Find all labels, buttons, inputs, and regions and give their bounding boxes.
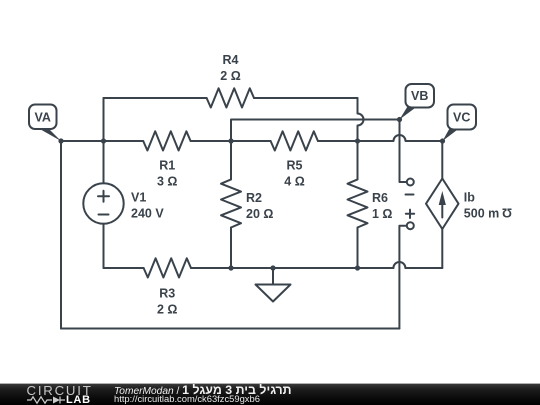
wire V1 bottom lead <box>103 224 105 268</box>
wire Ib top lead <box>441 141 443 179</box>
wire top row right segment from R4 <box>254 97 358 99</box>
footer logo LAB <box>66 394 91 405</box>
junction R6 bottom <box>355 265 360 270</box>
svg-text:R2: R2 <box>246 191 262 205</box>
wire R5 right lead <box>318 140 358 142</box>
junction R6 top <box>355 138 360 143</box>
junction node VC <box>440 138 445 143</box>
wire bottom rail hop over control riser <box>393 262 405 268</box>
resistor R3 <box>144 258 191 277</box>
svg-text:3 Ω: 3 Ω <box>157 175 177 189</box>
wire R5 left lead <box>231 140 271 142</box>
wire control plus vertical riser <box>399 226 406 329</box>
label R1 <box>157 159 177 189</box>
svg-text:R4: R4 <box>223 53 239 67</box>
svg-text:R3: R3 <box>159 287 175 301</box>
wire R4 right drop with hop over mid wire <box>358 98 364 141</box>
svg-text:Ib: Ib <box>464 191 475 205</box>
svg-text:V1: V1 <box>131 191 146 205</box>
svg-text:240 V: 240 V <box>131 207 164 221</box>
wire bottom rail left segment <box>104 267 144 269</box>
svg-text:Ω: Ω <box>502 205 512 219</box>
current source Ib diamond <box>426 179 459 230</box>
control port plus sign <box>406 210 414 218</box>
wire left vertical VA down <box>60 141 62 329</box>
label Ib <box>464 191 512 221</box>
svg-text:2 Ω: 2 Ω <box>220 69 240 83</box>
svg-text:VA: VA <box>34 110 50 124</box>
footer bar <box>0 384 540 405</box>
wire main row hop over VB drop <box>358 135 443 141</box>
svg-text:R5: R5 <box>287 159 303 173</box>
resistor R4 <box>207 88 254 107</box>
wire VA node to V1 top row <box>61 140 104 142</box>
node VB flag <box>400 84 435 120</box>
label R6 <box>372 191 392 221</box>
svg-text:2 Ω: 2 Ω <box>157 303 177 317</box>
label R4 <box>220 53 240 83</box>
svg-text:20 Ω: 20 Ω <box>246 207 273 221</box>
node VC flag <box>443 105 477 142</box>
junction node VB <box>397 117 402 122</box>
footer url line <box>114 393 260 404</box>
svg-text:VC: VC <box>453 111 470 125</box>
junction node A (VA) <box>58 138 63 143</box>
footer logo squiggle <box>27 397 65 404</box>
wire top row left segment to R4 <box>104 97 207 99</box>
control port minus terminal <box>407 179 414 186</box>
svg-text:R6: R6 <box>372 191 388 205</box>
resistor R5 <box>271 131 318 150</box>
wire bottom rail ground to R6 <box>191 267 358 269</box>
junction R2 top <box>228 138 233 143</box>
svg-text:http://circuitlab.com/ck63fzc5: http://circuitlab.com/ck63fzc59gxb6 <box>114 393 260 404</box>
resistor R1 <box>143 131 190 150</box>
wire VB drop to minus terminal <box>400 120 407 183</box>
resistor R2 <box>221 141 241 268</box>
wire bottom rail R6 to hop <box>358 267 394 269</box>
svg-text:1 Ω: 1 Ω <box>372 207 392 221</box>
junction V1 top <box>101 138 106 143</box>
svg-text:LAB: LAB <box>66 394 91 405</box>
label V1 <box>131 191 164 221</box>
control port minus sign <box>406 194 414 196</box>
label R5 <box>284 159 304 189</box>
wire bottom long horizontal <box>61 328 399 330</box>
wire V1 top lead vertical to top row <box>103 98 105 141</box>
control port plus terminal <box>407 222 414 229</box>
label R2 <box>246 191 273 221</box>
wire mid row corner at R2 top <box>231 120 400 142</box>
footer title line <box>114 383 292 397</box>
wire bottom rail right with corner up to Ib <box>405 267 442 269</box>
svg-text:VB: VB <box>411 89 428 103</box>
wire Ib bottom lead <box>441 229 443 268</box>
junction ground <box>270 265 275 270</box>
wire V1 top lead <box>103 141 105 183</box>
wire R1 left lead <box>104 140 144 142</box>
wire R1 right lead <box>191 140 231 142</box>
junction R2 bottom <box>228 265 233 270</box>
label R3 <box>157 287 177 317</box>
svg-text:4 Ω: 4 Ω <box>284 175 304 189</box>
ground <box>256 268 291 302</box>
voltage source V1 <box>83 183 123 223</box>
resistor R6 <box>348 141 368 268</box>
node VA flag <box>29 105 61 142</box>
svg-text:500 m: 500 m <box>464 207 499 221</box>
svg-text:R1: R1 <box>159 159 175 173</box>
footer logo CIRCUIT <box>27 383 93 398</box>
